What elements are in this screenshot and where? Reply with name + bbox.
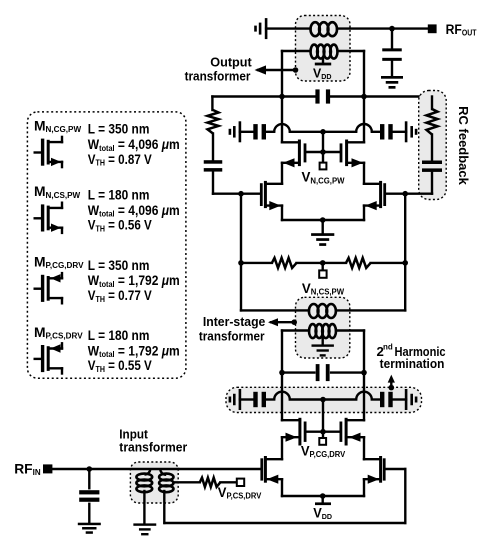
svg-text:transformer: transformer	[199, 329, 265, 343]
svg-text:Output: Output	[210, 54, 252, 69]
svg-text:L = 180 nm: L = 180 nm	[88, 187, 150, 203]
svg-text:Inter-stage: Inter-stage	[203, 315, 266, 329]
svg-text:transformer: transformer	[119, 440, 187, 454]
svg-text:nd: nd	[383, 343, 393, 352]
svg-text:RC feedback: RC feedback	[456, 106, 471, 186]
svg-text:L = 350 nm: L = 350 nm	[88, 121, 150, 137]
svg-text:termination: termination	[380, 357, 445, 371]
svg-text:transformer: transformer	[185, 69, 251, 84]
svg-text:L = 180 nm: L = 180 nm	[88, 327, 150, 343]
svg-text:L = 350 nm: L = 350 nm	[88, 257, 150, 273]
